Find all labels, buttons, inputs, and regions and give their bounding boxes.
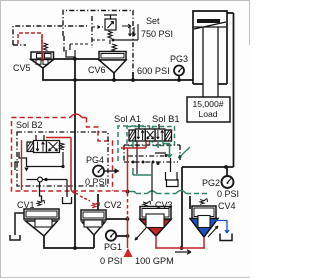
wire: pilot stub at x=133 <box>132 72 134 80</box>
gauge PG4 <box>93 166 115 177</box>
pilot dashed lines inside box R <box>70 27 105 44</box>
vent arrow to right edge <box>122 24 131 28</box>
svg-text:0 PSI: 0 PSI <box>100 256 122 266</box>
piston rod <box>203 27 218 97</box>
check valve CV2 <box>81 210 106 235</box>
svg-text:CV3: CV3 <box>155 200 173 210</box>
A1B1 lower ports <box>137 141 178 201</box>
source arrow 100GPM <box>124 248 133 257</box>
adjustment arrows <box>129 24 139 40</box>
pilot red lines in B2 <box>46 138 90 202</box>
wire: CV4 feed stub <box>189 196 191 209</box>
svg-text:CV1: CV1 <box>17 200 35 210</box>
valve V-B2 (2-position solenoid) <box>27 135 64 167</box>
svg-text:600 PSI: 600 PSI <box>137 66 170 76</box>
wire: cylinder cap to right return line <box>227 13 234 167</box>
svg-text:CV2: CV2 <box>104 200 122 210</box>
enclosure Sol A1/B1 (green dashed) <box>118 126 210 194</box>
pilot line (red) to CV5 spring <box>18 33 42 62</box>
svg-text:PG3: PG3 <box>170 54 188 64</box>
svg-text:CV5: CV5 <box>13 63 31 73</box>
wire: return drop to bottom red line <box>181 167 183 248</box>
inner dash-dot frame B2 <box>17 132 108 186</box>
gauge PG3 <box>174 66 184 76</box>
svg-text:PG4: PG4 <box>86 155 104 165</box>
wire: CV5 outlet to cylinder rod port (main line y=80) <box>43 68 193 80</box>
svg-text:15,000#: 15,000# <box>192 99 223 109</box>
pump red line <box>121 142 146 249</box>
wire: CV1-CV2 bottom link <box>44 234 94 248</box>
check valve CV6 <box>99 44 126 73</box>
check valve CV1 <box>10 200 59 240</box>
svg-text:PG2: PG2 <box>202 178 220 188</box>
svg-text:PG1: PG1 <box>104 242 122 252</box>
piston <box>197 19 220 23</box>
cylinder barrel <box>193 11 227 84</box>
svg-text:CV6: CV6 <box>88 65 106 75</box>
green work lines <box>133 141 172 175</box>
scan border frame <box>0 0 250 278</box>
wire: main center vertical x=75 <box>74 59 76 248</box>
check valve CV4 <box>190 199 232 241</box>
svg-text:Sol B1: Sol B1 <box>152 113 180 124</box>
wire: PG1 stub to pump line <box>117 235 127 237</box>
gauge PG2 <box>222 176 234 188</box>
CV3 red stem <box>155 236 157 248</box>
svg-text:100 GPM: 100 GPM <box>135 256 174 266</box>
pilot arrow into relief <box>98 26 101 29</box>
wire: return line horizontal to PG2 corner <box>182 166 234 168</box>
svg-text:Load: Load <box>198 109 217 119</box>
relief valve RV1 <box>104 15 138 44</box>
wire: CV2 outlet to pump line <box>106 218 127 220</box>
B2 lower ports <box>15 152 72 204</box>
check valve CV5 <box>31 43 54 68</box>
enclosure box R (dash-dot) <box>63 11 133 72</box>
tank T1 (relief drain) <box>66 44 75 57</box>
wire: PG2 stub <box>226 168 228 176</box>
svg-text:Sol B2: Sol B2 <box>16 120 43 130</box>
wire: CV6 poppet stem <box>113 73 115 80</box>
relief spring <box>108 31 112 39</box>
node: PG2 tap <box>224 165 228 169</box>
svg-text:Sol A1: Sol A1 <box>114 113 141 124</box>
node: bottom line <box>73 246 77 250</box>
svg-text:CV4: CV4 <box>218 201 236 211</box>
enclosure box L (dash-dot) <box>13 26 87 52</box>
CV4 blue drain <box>215 221 229 234</box>
flow arrow <box>175 250 191 254</box>
load box <box>187 97 230 122</box>
gauge PG1 <box>106 230 116 240</box>
CV2 red spring <box>92 202 100 208</box>
inner dash-dot frame A1B1 <box>124 145 180 162</box>
red bottom line CV3-CV4 <box>155 247 205 249</box>
valve V-A1B1 (3-position solenoid) <box>129 124 172 141</box>
check valve CV3 <box>135 201 171 240</box>
pilot red through CV5 spring <box>41 36 43 61</box>
CV4 red stem <box>203 237 205 248</box>
wire: PG3 stub <box>178 76 180 80</box>
node: pump line taps <box>126 190 130 194</box>
svg-text:Set: Set <box>146 16 160 26</box>
node: main line junctions <box>73 57 77 61</box>
svg-text:750 PSI: 750 PSI <box>141 29 173 39</box>
enclosure Sol B2 (red dashed) <box>12 114 128 191</box>
wire: CV2 feed <box>97 194 99 210</box>
wire: CV5 body to CV6 link (y=59) <box>53 58 100 60</box>
green proportional arrow <box>179 147 191 158</box>
svg-text:0 PSI: 0 PSI <box>217 189 239 199</box>
